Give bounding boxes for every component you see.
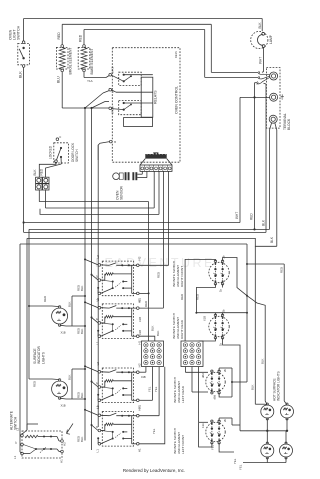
svg-text:RE1S: RE1S	[174, 51, 178, 58]
wire H1 sw1 rail	[139, 292, 150, 307]
svg-text:01B: 01B	[141, 375, 146, 379]
oven control terminal B	[110, 140, 117, 144]
wire broil feed	[62, 24, 258, 72]
svg-text:13A: 13A	[201, 423, 205, 428]
wire ELR terms	[212, 368, 232, 397]
svg-text:LAMP: LAMP	[269, 34, 273, 44]
wire BLU broil out	[56, 72, 109, 108]
svg-text:YEL: YEL	[233, 458, 237, 464]
svg-text:BLU: BLU	[56, 76, 60, 83]
hot surface light 3	[261, 442, 274, 459]
connector grid left	[142, 341, 164, 367]
wire rail C	[97, 145, 99, 427]
svg-text:SWITCH: SWITCH	[75, 149, 79, 162]
relay K1	[109, 66, 153, 85]
label right rear	[172, 313, 184, 339]
wire feeders switch4	[76, 409, 99, 444]
wire H2 sw1 rail	[139, 265, 169, 278]
wire alt switch feeds	[20, 424, 38, 453]
svg-text:INDICATOR LIGHTS: INDICATOR LIGHTS	[277, 371, 281, 401]
ground symbol	[281, 94, 284, 99]
wire pin4 riser	[158, 171, 160, 214]
svg-text:BLK: BLK	[261, 219, 265, 226]
wire feeders switch2	[76, 301, 99, 336]
svg-text:LOCKED: LOCKED	[49, 145, 53, 159]
svg-text:L2: L2	[96, 255, 100, 259]
relays outline	[124, 77, 158, 126]
svg-text:BAKE: BAKE	[112, 66, 115, 73]
svg-text:RED: RED	[195, 294, 199, 300]
svg-text:BLK: BLK	[258, 22, 262, 29]
wire pin6 riser	[168, 171, 170, 265]
wire B rail	[98, 142, 109, 160]
terminal block	[266, 68, 291, 130]
svg-text:L1: L1	[96, 341, 100, 345]
wire cord leg A	[270, 123, 272, 230]
oven light switch	[9, 25, 30, 67]
connector plug B	[36, 184, 49, 190]
oven sensor	[113, 172, 138, 200]
svg-text:BLK: BLK	[80, 328, 84, 334]
svg-text:BLK: BLK	[19, 71, 23, 78]
footer text	[123, 468, 185, 473]
svg-text:BLK: BLK	[80, 392, 84, 398]
wire pin3 riser	[153, 171, 155, 208]
wire light1 bottom	[60, 325, 86, 335]
wire light1 top	[29, 296, 60, 307]
svg-text:P: P	[95, 275, 99, 277]
wire light2 bottom	[60, 398, 86, 408]
wire ERF topright	[223, 258, 248, 297]
svg-text:P: P	[95, 426, 99, 428]
svg-text:H2: H2	[63, 442, 67, 446]
door lock switch	[49, 135, 80, 163]
hot surface light 4	[280, 442, 293, 459]
svg-text:L1: L1	[96, 449, 100, 453]
svg-text:YEL: YEL	[154, 386, 158, 392]
svg-text:1b: 1b	[219, 288, 223, 292]
svg-text:BLK: BLK	[80, 436, 84, 442]
svg-text:1b: 1b	[219, 342, 223, 346]
svg-text:X1B: X1B	[61, 404, 66, 408]
svg-text:YEL: YEL	[152, 428, 156, 434]
wire light2 top	[28, 305, 60, 387]
svg-text:H2: H2	[138, 407, 142, 411]
svg-text:2b: 2b	[222, 309, 226, 313]
element left front	[201, 418, 227, 450]
svg-text:H1: H1	[59, 459, 63, 463]
svg-text:RED: RED	[250, 213, 254, 220]
wire L1 link	[112, 90, 153, 92]
wire ERF topleft	[180, 259, 215, 341]
wire bus BLK	[24, 231, 266, 233]
svg-text:RED: RED	[279, 267, 283, 273]
wire bake to BAKE terminal	[84, 72, 109, 83]
wire diag aux	[92, 102, 110, 109]
surface indicator light 1	[52, 306, 68, 327]
svg-text:RELAYS: RELAYS	[153, 90, 157, 104]
svg-text:BLOCK: BLOCK	[287, 118, 291, 130]
svg-text:H2: H2	[138, 299, 142, 303]
wire pin5 riser	[162, 171, 164, 308]
svg-text:RED: RED	[40, 168, 44, 175]
svg-text:SENSOR: SENSOR	[120, 185, 124, 200]
wire feeders switch3	[76, 365, 99, 400]
wire bus 2	[46, 207, 155, 209]
wire hot bottom bus	[238, 457, 286, 470]
wire bus 3	[40, 209, 159, 215]
wire WHT lamp	[258, 48, 263, 73]
wire rail B	[91, 108, 93, 450]
wire BLK hot feed	[250, 246, 267, 404]
wire grid2 drops	[185, 367, 208, 423]
svg-text:BAKE ELEMENT: BAKE ELEMENT	[90, 48, 94, 74]
wire BLK drop2	[67, 368, 86, 399]
wire ERF bottomright	[222, 284, 224, 288]
broil element	[56, 32, 72, 75]
infinite switch 3 (left rear)	[95, 362, 142, 409]
svg-text:H1: H1	[138, 340, 142, 344]
wire plug RED down	[45, 190, 47, 208]
surface indicator light 2	[52, 379, 68, 400]
wire cord leg B	[270, 123, 277, 247]
svg-text:RIGHT REAR: RIGHT REAR	[180, 319, 184, 339]
wire WHT riser	[235, 97, 240, 222]
svg-text:LEFT REAR: LEFT REAR	[181, 385, 185, 403]
wire ERR bottomleft	[199, 338, 216, 341]
label right front	[172, 261, 184, 287]
wire diag to L1	[85, 91, 109, 108]
infinite switch 1 (right front)	[95, 255, 142, 302]
svg-text:P: P	[14, 442, 18, 444]
infinite switch 4 (left front)	[95, 405, 142, 452]
wire door lock red drop	[46, 157, 62, 177]
wire BLK riser	[261, 83, 266, 232]
svg-text:L2: L2	[96, 298, 100, 302]
svg-text:RED: RED	[32, 381, 36, 387]
svg-text:L2: L2	[96, 362, 100, 366]
label left front	[173, 428, 185, 454]
svg-text:LEADVENTURE: LEADVENTURE	[95, 256, 215, 270]
svg-text:RED: RED	[79, 34, 83, 42]
wire BLK oven light	[19, 67, 24, 232]
crimp splice 2	[259, 76, 270, 79]
svg-text:P: P	[95, 318, 99, 320]
alternate switch arrow	[67, 424, 74, 435]
wire element bus	[195, 312, 248, 314]
svg-text:BLK: BLK	[67, 374, 71, 380]
bake element	[78, 34, 94, 74]
oven control box	[112, 48, 180, 163]
svg-text:BLK: BLK	[250, 384, 254, 390]
svg-text:P: P	[95, 382, 99, 384]
svg-text:BROIL: BROIL	[112, 106, 115, 114]
svg-text:SWITCH: SWITCH	[17, 25, 21, 40]
svg-text:LIGHTS: LIGHTS	[41, 351, 45, 364]
svg-text:d8d: d8d	[213, 395, 217, 400]
svg-text:WHT: WHT	[258, 57, 262, 64]
svg-text:X1B: X1B	[138, 317, 142, 322]
wire BLK drop1	[67, 295, 86, 326]
hot surface light 2	[281, 403, 294, 420]
alternate switch	[10, 410, 67, 463]
wire bus cord BLK	[27, 238, 277, 430]
svg-text:BLK: BLK	[33, 169, 37, 176]
wire RED light rail	[246, 263, 287, 405]
connector plug	[140, 165, 172, 171]
svg-text:WHT: WHT	[235, 212, 239, 219]
svg-text:H1: H1	[138, 448, 142, 452]
svg-text:B: B	[114, 140, 116, 144]
svg-text:BLK: BLK	[156, 330, 160, 336]
wire bus WHT	[23, 221, 241, 223]
wire bus 1	[39, 202, 148, 341]
wire T2 link	[240, 96, 270, 98]
wire RED riser	[250, 97, 255, 229]
node rail b tap	[90, 107, 92, 109]
wire feeders switch1	[76, 258, 99, 293]
connector plug A	[36, 177, 49, 183]
decor watermark	[95, 256, 215, 270]
wire bus low	[20, 244, 247, 452]
svg-text:OVEN CONTROL: OVEN CONTROL	[174, 86, 178, 114]
wire stub third crimp	[255, 83, 258, 98]
hot surface lights label	[272, 371, 280, 401]
connector header	[140, 152, 172, 165]
element left rear	[201, 368, 227, 399]
wire ERR bottomright	[223, 338, 240, 431]
svg-text:RED: RED	[157, 272, 161, 278]
wire bus RED	[29, 228, 270, 306]
svg-text:Rendered by LeadVenture, Inc.: Rendered by LeadVenture, Inc.	[123, 468, 185, 473]
relay K2	[109, 88, 153, 114]
wire plug BLK down	[38, 190, 40, 201]
svg-text:LEFT FRONT: LEFT FRONT	[181, 435, 185, 454]
svg-text:H2: H2	[138, 363, 142, 367]
svg-text:YEL: YEL	[238, 464, 242, 470]
wire ELF terms	[199, 418, 234, 452]
svg-text:BLK: BLK	[260, 358, 264, 364]
surface lights label	[33, 346, 45, 364]
svg-text:RED: RED	[144, 301, 148, 307]
wire hot mid bus	[240, 418, 288, 432]
wire ELF out	[232, 418, 240, 464]
svg-text:YEL: YEL	[148, 386, 152, 392]
wire door lock drop	[39, 163, 56, 178]
wire rail A	[84, 108, 86, 441]
infinite switch 2 (right rear)	[95, 298, 142, 345]
svg-text:2b: 2b	[223, 418, 227, 422]
wire ERF bottomleft	[195, 284, 215, 313]
svg-text:RED: RED	[57, 32, 61, 40]
wire BLK mid rail	[247, 296, 267, 405]
wire sensor leads	[137, 171, 147, 177]
wire grid1 drops	[139, 367, 159, 416]
crimp splice 1	[259, 71, 270, 75]
svg-text:Y1A: Y1A	[87, 79, 93, 83]
svg-text:X1B: X1B	[61, 331, 66, 335]
wire ERR top stubs	[215, 313, 222, 316]
wire label BLK	[33, 169, 37, 176]
svg-text:d8d: d8d	[201, 373, 205, 378]
svg-text:BLK: BLK	[67, 301, 71, 307]
node rail a tap	[84, 107, 86, 109]
wire bake feed	[84, 30, 259, 78]
svg-text:BROIL ELEMENT: BROIL ELEMENT	[69, 47, 73, 74]
svg-text:RED: RED	[180, 294, 184, 300]
element right front	[209, 255, 229, 292]
svg-text:H2: H2	[138, 256, 142, 260]
connector grid right	[181, 341, 203, 367]
label left rear	[173, 377, 185, 403]
svg-text:C: C	[59, 135, 61, 139]
wire H1 sw2 rail	[139, 325, 160, 341]
svg-text:BLK: BLK	[80, 285, 84, 291]
svg-text:L1: L1	[13, 455, 17, 459]
svg-text:BLK: BLK	[270, 236, 274, 243]
wire ELR out	[231, 313, 247, 383]
wire H2 sw2 rail	[139, 307, 163, 309]
wire top bus L1-lamp	[24, 19, 263, 42]
svg-text:X1B: X1B	[202, 316, 206, 321]
svg-text:BLK: BLK	[150, 325, 154, 331]
svg-text:RIGHT FRONT: RIGHT FRONT	[180, 266, 184, 287]
svg-text:L2: L2	[16, 427, 20, 431]
wire hot lower feeds	[267, 431, 286, 444]
crimp splice 3	[257, 77, 270, 84]
svg-text:L2: L2	[96, 405, 100, 409]
svg-text:2b: 2b	[223, 368, 227, 372]
svg-text:RED: RED	[43, 296, 47, 302]
hot surface light 1	[261, 403, 274, 420]
oven lamp	[251, 22, 273, 49]
element right rear	[202, 309, 229, 346]
wire label RED	[40, 168, 44, 175]
svg-text:X1B: X1B	[138, 330, 142, 335]
wire sw4 H1 feed	[139, 367, 165, 444]
